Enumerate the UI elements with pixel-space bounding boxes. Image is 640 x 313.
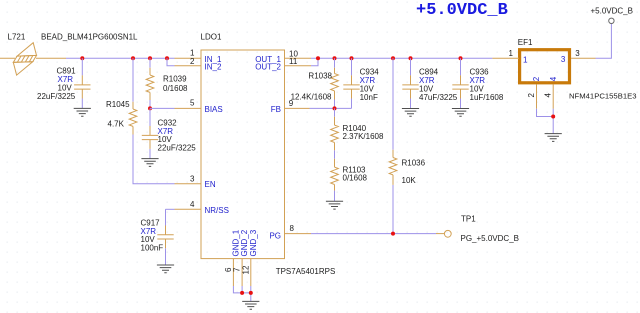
svg-text:2: 2 [532,76,541,81]
svg-text:10nF: 10nF [360,93,378,102]
pin 1 (EF1) [492,49,528,64]
svg-text:GND_2: GND_2 [240,229,249,256]
node: junction R1039 [148,56,152,60]
node: junction FB [333,106,337,110]
svg-text:TPS7A5401RPS: TPS7A5401RPS [276,267,336,276]
op-amp U1: regulator LDO1 box [201,33,336,276]
svg-text:4: 4 [544,93,553,98]
capacitor C934 [343,58,379,108]
svg-text:PG_+5.0VDC_B: PG_+5.0VDC_B [461,234,519,243]
ground (C932) [141,159,158,167]
pin 11 OUT_2 [255,57,311,71]
svg-text:12.4K/1608: 12.4K/1608 [291,92,332,101]
svg-text:+5.0VDC_B: +5.0VDC_B [591,6,633,15]
svg-text:GND_1: GND_1 [232,229,241,256]
test point TP1 [436,215,519,244]
node: junction C934 top [350,56,354,60]
node: junction gnd pins [240,291,244,295]
svg-text:8: 8 [290,224,295,233]
svg-text:0/1608: 0/1608 [163,84,188,93]
svg-text:NFM41PC155B1E3: NFM41PC155B1E3 [569,91,637,100]
svg-text:PG: PG [269,231,281,240]
ground (C894) [402,109,419,117]
svg-text:2: 2 [527,93,536,98]
wire: output to +5.0VDC_B port [596,24,612,59]
svg-text:2.37K/1608: 2.37K/1608 [343,132,384,141]
resistor R1038 [291,58,339,108]
capacitor C932 [142,108,197,158]
capacitor C891 [37,58,91,108]
svg-text:11: 11 [289,57,298,66]
filter EF1 [518,38,637,100]
svg-text:7: 7 [233,267,242,272]
wire: PG net [311,233,436,235]
svg-text:4: 4 [549,76,558,81]
svg-text:2: 2 [190,57,195,66]
node: junction pin2 branch [165,56,169,60]
pin 3 (EF1) [561,49,596,64]
svg-text:1: 1 [523,55,528,64]
resistor R1039 [146,58,188,108]
svg-text:NR/SS: NR/SS [205,206,229,215]
resistor R1036 [389,58,425,233]
svg-text:47uF/3225: 47uF/3225 [419,93,458,102]
svg-text:4: 4 [190,200,195,209]
svg-text:FB: FB [271,105,281,114]
wire: NR/SS net [166,208,175,210]
svg-text:22uF/3225: 22uF/3225 [158,144,197,153]
svg-text:22uF/3225: 22uF/3225 [37,92,76,101]
wire: input rail [66,57,175,59]
wire: BIAS net [150,107,175,109]
svg-text:100nF: 100nF [141,244,164,253]
svg-text:5: 5 [190,99,195,108]
pin 10 OUT_1 [255,49,311,64]
capacitor C936 [452,58,504,108]
ground (EF1) [545,134,562,142]
svg-text:EF1: EF1 [518,38,533,47]
pin 1 IN_1 [175,49,222,64]
wire: EF1 ground tie [537,109,554,134]
wire: output rail [311,57,492,59]
node: junction PG / R1036 [391,232,395,236]
wire: input rail from sheet edge through bead [0,57,66,59]
ground (R1103) [326,201,343,209]
ground (C917) [157,265,174,273]
svg-text:IN_2: IN_2 [205,62,222,71]
capacitor C917 [141,209,174,265]
node: junction R1045 [131,56,135,60]
svg-text:L721: L721 [8,33,26,42]
inductor bead L721 [13,43,36,75]
svg-text:12: 12 [241,265,250,274]
node: junction C891 [80,56,84,60]
pin 7 GND_2 [233,229,250,286]
svg-text:LDO1: LDO1 [201,33,222,42]
node: junction R1036 top [391,56,395,60]
pin 2 (EF1) [527,76,541,109]
wire: branch to pin IN_2 [167,58,175,66]
svg-text:TP1: TP1 [461,215,476,224]
wire: ground tie below IC [233,286,250,301]
pin 6 GND_1 [224,229,241,286]
svg-text:BEAD_BLM41PG600SN1L: BEAD_BLM41PG600SN1L [41,33,138,42]
svg-text:3: 3 [190,175,195,184]
node: junction C894 top [409,56,413,60]
svg-text:+5.0VDC_B: +5.0VDC_B [416,1,508,20]
pin 3 EN [175,175,216,190]
capacitor C894 [402,58,458,108]
pin 9 FB [271,99,310,114]
ground (C891) [74,108,91,116]
ground (C936) [452,109,469,117]
resistor R1040 [331,108,384,158]
pin 2 IN_2 [175,57,222,71]
wire: branch from pin OUT_2 [311,58,318,66]
pin 4 NR/SS [175,200,229,215]
node: junction BIAS [148,106,152,110]
wire: FB net [310,107,352,109]
svg-text:3: 3 [575,49,580,58]
svg-text:R1045: R1045 [106,100,130,109]
svg-text:EN: EN [205,180,216,189]
power port +5.0VDC_B [591,6,633,23]
node: junction OUT_2 [316,56,320,60]
pin 8 PG [269,224,311,240]
svg-text:1: 1 [509,49,514,58]
svg-text:0/1608: 0/1608 [343,174,368,183]
node: junction R1038 top [333,56,337,60]
svg-text:GND_3: GND_3 [249,229,258,256]
svg-text:6: 6 [224,267,233,272]
resistor R1045 [106,58,137,134]
ground (IC) [242,301,259,309]
svg-text:R1036: R1036 [402,159,426,168]
wire: EN net from R1045 to pin 3 [133,135,175,184]
svg-text:R1039: R1039 [163,75,187,84]
pin 12 GND_3 [241,229,258,286]
svg-text:4.7K: 4.7K [108,119,125,128]
svg-text:OUT_2: OUT_2 [255,62,281,71]
svg-text:1uF/1608: 1uF/1608 [470,93,504,102]
pin 4 (EF1) [544,76,558,109]
node: junction C936 top [459,56,463,60]
svg-text:R1038: R1038 [308,72,332,81]
resistor R1103 [331,159,368,202]
svg-text:3: 3 [561,55,566,64]
pin 5 BIAS [175,99,223,115]
node: junction EF1 gnd [551,115,555,119]
svg-text:10K: 10K [402,176,417,185]
svg-text:BIAS: BIAS [205,105,223,114]
